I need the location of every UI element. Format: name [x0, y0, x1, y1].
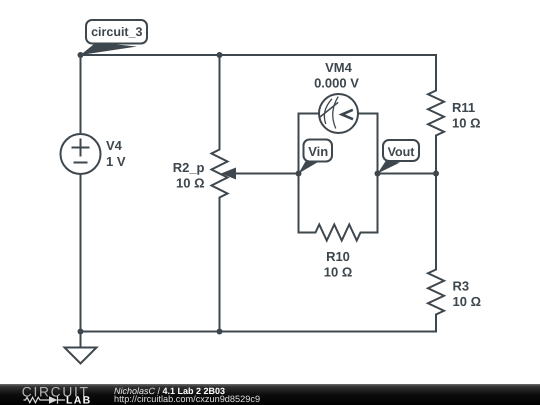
svg-text:R3: R3 — [453, 279, 470, 294]
svg-text:http://circuitlab.com/cxzun9d8: http://circuitlab.com/cxzun9d8529c9 — [114, 394, 260, 404]
svg-text:VM4: VM4 — [325, 60, 353, 75]
svg-text:10 Ω: 10 Ω — [453, 294, 482, 309]
svg-text:10 Ω: 10 Ω — [324, 265, 353, 280]
svg-text:circuit_3: circuit_3 — [91, 25, 142, 39]
svg-text:1 V: 1 V — [106, 154, 126, 169]
svg-text:Vout: Vout — [388, 145, 416, 159]
svg-text:R10: R10 — [326, 249, 350, 264]
svg-text:Vin: Vin — [308, 144, 328, 159]
svg-text:R11: R11 — [452, 100, 475, 115]
svg-text:R2_p: R2_p — [173, 160, 205, 175]
svg-text:10 Ω: 10 Ω — [176, 176, 205, 191]
svg-text:10 Ω: 10 Ω — [452, 116, 481, 131]
svg-text:LAB: LAB — [66, 395, 91, 405]
svg-text:0.000 V: 0.000 V — [314, 76, 359, 91]
svg-text:V4: V4 — [106, 138, 123, 153]
